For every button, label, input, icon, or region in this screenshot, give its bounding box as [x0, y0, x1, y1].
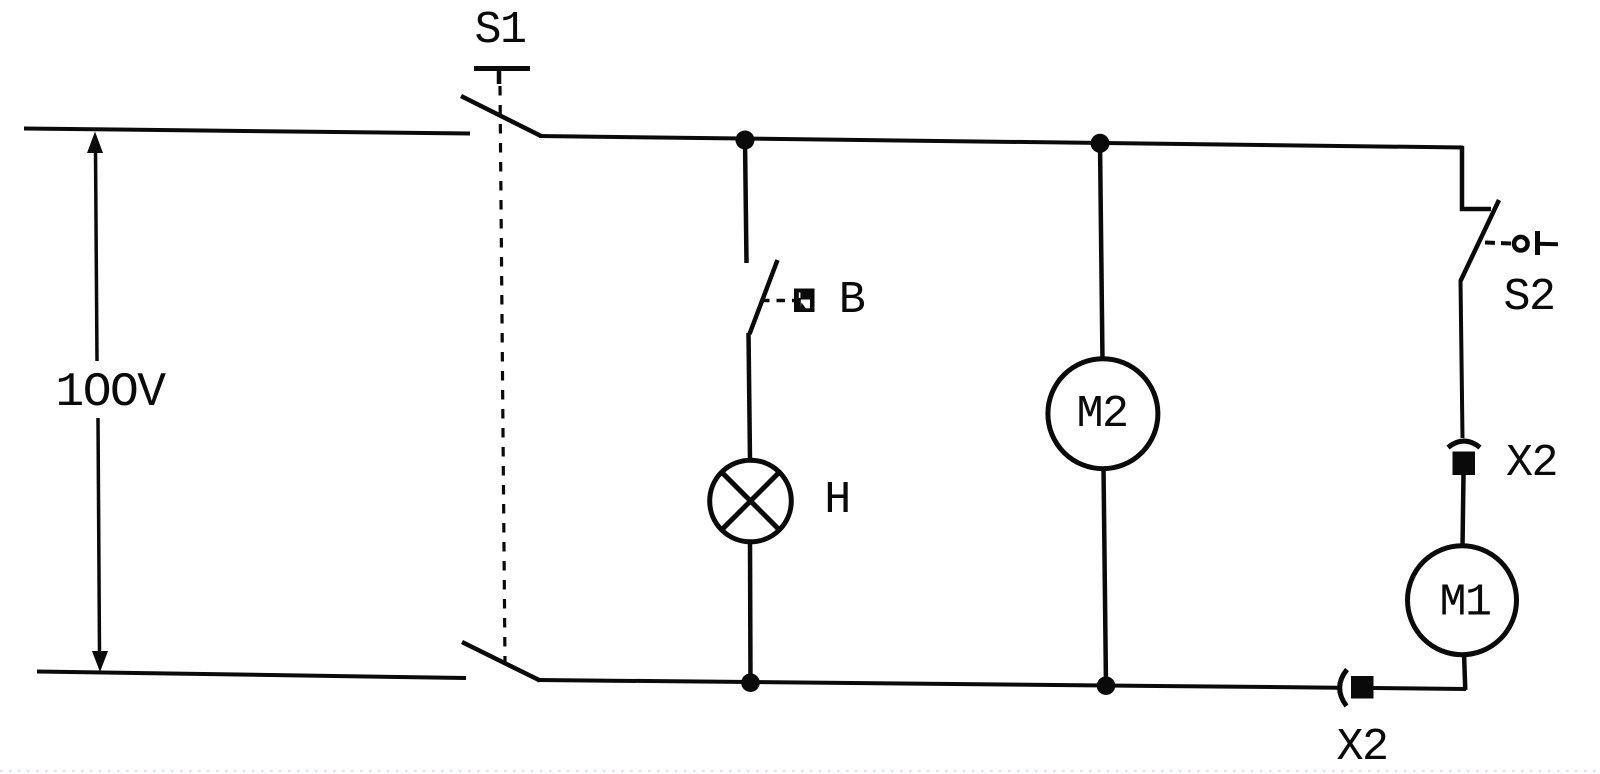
lamp H cross: [721, 472, 780, 531]
connector X2 upper plug arc: [1448, 441, 1480, 448]
switch B dashed link: [761, 299, 794, 303]
svg-text:M2: M2: [1076, 389, 1127, 440]
motor M2: [1048, 359, 1158, 469]
motor M1: [1408, 546, 1517, 655]
source 100V dimension arrow lower line: [98, 418, 100, 653]
switch B blade: [750, 260, 778, 334]
wire M2 to bottom junction: [1104, 467, 1107, 688]
switch S1 linkage dashed line: [500, 86, 505, 663]
wire bottom middle horizontal: [538, 680, 1338, 688]
svg-text:H: H: [824, 475, 850, 526]
wire S2 to X2: [1461, 280, 1463, 438]
wire H branch upper vertical: [745, 140, 747, 263]
switch S2 operator bar: [1535, 231, 1540, 255]
source arrowhead up: [87, 132, 103, 154]
wire X2 to M1: [1463, 474, 1464, 548]
svg-text:1OOV: 1OOV: [55, 366, 166, 420]
wire lamp H to bottom junction: [748, 542, 753, 684]
switch S1 actuator T-bar: [474, 66, 530, 71]
wire M2 branch upper vertical: [1100, 143, 1103, 361]
node junction bottom of M2 branch: [1097, 676, 1116, 695]
wire top-left horizontal: [24, 129, 470, 134]
svg-text:X2: X2: [1506, 438, 1557, 489]
svg-text:M1: M1: [1439, 578, 1490, 629]
svg-text:S1: S1: [474, 5, 525, 56]
svg-text:X2: X2: [1336, 722, 1387, 773]
lamp H circle: [710, 460, 792, 542]
node junction top of M2 branch: [1091, 134, 1110, 153]
source arrowhead down: [92, 651, 108, 672]
svg-text:B: B: [839, 275, 865, 326]
switch S1 bottom pole blade: [462, 642, 540, 681]
scan artifact dotted line bottom: [0, 770, 1600, 772]
wire top horizontal (right of S1): [539, 136, 1463, 148]
wire bottom-right horizontal: [1373, 688, 1466, 689]
wire bottom-left horizontal: [37, 672, 466, 679]
switch S2 blade: [1461, 200, 1500, 281]
switch S1 top pole blade: [461, 96, 541, 136]
connector X2 lower plug arc: [1340, 670, 1347, 707]
node junction top of H/B branch: [736, 131, 755, 150]
wire M1 bottom stub: [1464, 653, 1465, 690]
switch B pushbutton box: [794, 289, 815, 313]
source 100V dimension arrow upper line: [96, 150, 98, 361]
wire right corner vertical down to S2: [1462, 146, 1491, 209]
switch S2 manual-operator circle: [1514, 237, 1528, 251]
connector X2 lower socket square: [1351, 676, 1374, 699]
switch S2 dashed link: [1485, 243, 1512, 244]
wire B to lamp H: [749, 333, 751, 461]
svg-text:S2: S2: [1503, 272, 1554, 323]
connector X2 upper socket square: [1453, 452, 1476, 476]
node junction bottom of H branch: [741, 673, 760, 692]
